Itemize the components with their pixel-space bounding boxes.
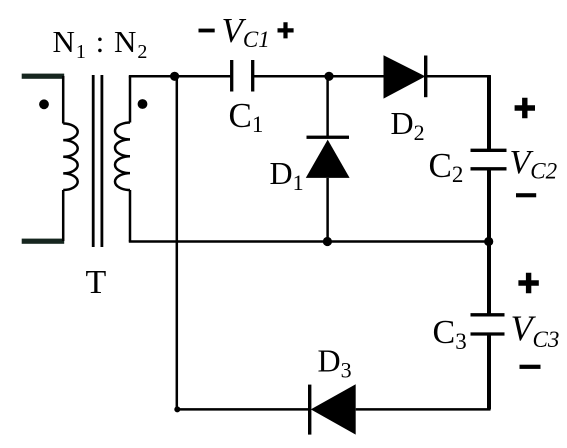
- svg-text:N1 : N2: N1 : N2: [53, 24, 149, 63]
- transformer T core lines: [93, 75, 102, 247]
- diode D3 cathode bar: [308, 385, 311, 435]
- transformer T primary winding: [63, 124, 77, 190]
- label + above C2: [515, 98, 535, 118]
- svg-text:D1: D1: [270, 155, 304, 195]
- capacitor C1 plates: [232, 60, 253, 92]
- svg-text:D3: D3: [318, 343, 352, 383]
- transformer T primary vertical leads: [62, 76, 65, 241]
- svg-text:D2: D2: [391, 105, 425, 145]
- svg-text:C3: C3: [433, 314, 467, 354]
- transformer T primary top stub: [22, 74, 64, 79]
- right rail: C2 bottom plate to C3 top plate: [487, 169, 491, 315]
- wire secondary top to node A and to C1: [129, 75, 231, 78]
- diode D1 triangle: [306, 140, 350, 178]
- right rail: C3 bottom plate down to bottom corner: [487, 334, 491, 409]
- transformer secondary phase dot: [138, 99, 148, 109]
- node C junction dot: [484, 237, 493, 246]
- label - below C2: [516, 193, 536, 197]
- bottom wire right segment from D3 to right rail: [356, 408, 491, 411]
- label -VC1+ : minus sign: [199, 29, 215, 33]
- svg-text:VC3: VC3: [511, 308, 560, 352]
- bottom-left elbow dot: [174, 406, 180, 412]
- diode D2 cathode bar: [424, 56, 427, 98]
- wire C1 to node B to D2: [253, 75, 384, 78]
- transformer T secondary winding: [115, 123, 130, 191]
- wire D1 anode down to node D: [326, 178, 329, 242]
- svg-text:T: T: [86, 264, 107, 301]
- label -VC1+ : plus sign: [278, 22, 294, 38]
- svg-text:C1: C1: [229, 96, 264, 137]
- diode D2 triangle: [384, 55, 426, 98]
- label + above C3: [518, 273, 538, 293]
- label - below C3: [520, 365, 541, 369]
- diode D1 cathode bar: [307, 136, 350, 139]
- capacitor C3 plates: [471, 315, 505, 334]
- right rail: corner down to C2 top plate: [487, 75, 491, 150]
- wire node B down to D1: [326, 76, 329, 137]
- left rail from node A down: [176, 76, 179, 409]
- node D junction dot: [323, 237, 332, 246]
- transformer primary phase dot: [39, 99, 49, 109]
- transformer T primary bottom stub: [22, 239, 64, 244]
- svg-text:VC2: VC2: [510, 144, 558, 184]
- bottom wire left segment to D3: [177, 408, 309, 411]
- node A junction dot: [170, 72, 179, 81]
- node B junction dot: [324, 72, 333, 81]
- capacitor C2 plates: [471, 150, 507, 169]
- svg-text:VC1: VC1: [222, 11, 270, 52]
- transformer T secondary vertical leads: [129, 76, 132, 241]
- svg-text:C2: C2: [429, 146, 464, 187]
- wire D2 to right rail corner: [426, 75, 491, 78]
- middle bus wire: secondary bottom to node C: [129, 240, 489, 243]
- diode D3 triangle: [311, 384, 356, 434]
